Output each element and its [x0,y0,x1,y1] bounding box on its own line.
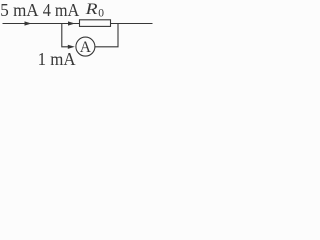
wire: top conductor [3,23,153,25]
arrowhead: 1 mA current direction [68,45,75,49]
svg-text:5 mA: 5 mA [0,0,38,20]
arrowhead: 4 mA current direction [68,21,75,25]
resistor R0 (box) [80,20,111,27]
svg-text:0: 0 [98,8,104,20]
arrowhead: 5 mA current direction [25,21,32,25]
svg-text:4 mA: 4 mA [43,0,80,20]
svg-text:R: R [84,1,98,18]
wire: right branch drop (node at x=118) [95,24,118,47]
ammeter A (circle) [76,37,95,56]
wire: left branch drop (node at x=62) [62,24,69,47]
svg-text:A: A [80,39,92,56]
svg-text:1 mA: 1 mA [38,49,76,69]
